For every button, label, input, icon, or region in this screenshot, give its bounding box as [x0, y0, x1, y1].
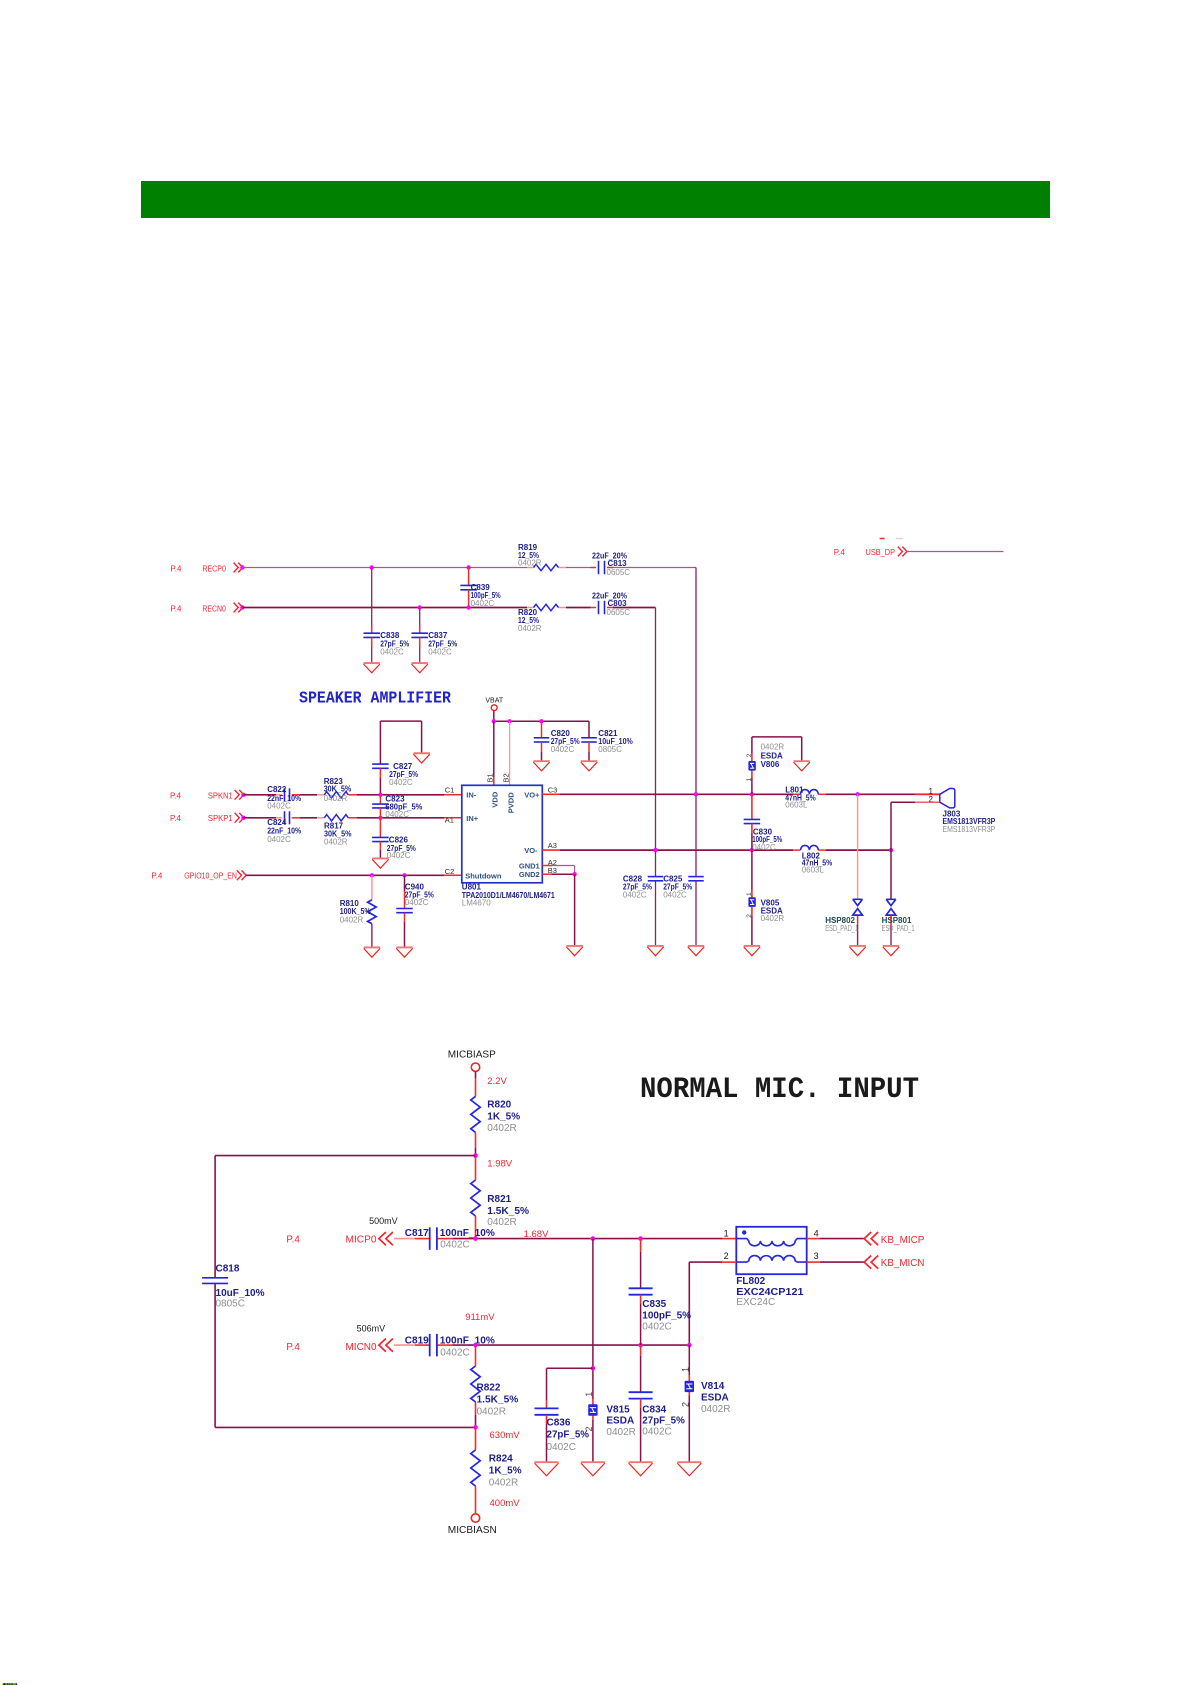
svg-text:C834: C834	[642, 1404, 666, 1415]
svg-text:0603L: 0603L	[802, 866, 825, 875]
capacitor C838	[363, 568, 409, 664]
wire HSP802	[857, 794, 859, 946]
svg-text:0402C: 0402C	[440, 1239, 469, 1250]
title NORMAL MIC. INPUT	[640, 1073, 919, 1107]
wire MICN0	[394, 1344, 689, 1346]
svg-text:0402C: 0402C	[752, 843, 776, 852]
svg-text:P.4: P.4	[834, 547, 845, 557]
wire GND2	[542, 873, 574, 875]
svg-text:1: 1	[746, 892, 753, 896]
voltage 911mV	[465, 1312, 495, 1323]
junction RECP0 port	[240, 565, 244, 569]
resistor R824	[471, 1427, 522, 1513]
svg-text:KB_MICN: KB_MICN	[881, 1258, 925, 1269]
wire VO-	[542, 849, 891, 851]
svg-text:1: 1	[724, 1229, 729, 1239]
svg-text:0603L: 0603L	[785, 800, 808, 809]
op-amp U801 box	[462, 785, 543, 883]
ground V806	[794, 761, 810, 771]
wire pin B1	[493, 721, 495, 785]
port RECP0	[234, 563, 243, 573]
svg-text:0605C: 0605C	[607, 568, 631, 577]
junction SPKN1/C823	[378, 793, 382, 797]
svg-text:0402R: 0402R	[489, 1477, 518, 1488]
junction VO+/C825	[694, 792, 698, 796]
svg-text:KB_MICP: KB_MICP	[881, 1235, 925, 1246]
svg-text:C822: C822	[267, 785, 287, 794]
pin number V806-2	[746, 753, 753, 757]
junction C836/V815	[591, 1366, 596, 1371]
svg-text:27pF_5%: 27pF_5%	[642, 1416, 685, 1427]
capacitor C835	[629, 1239, 692, 1346]
svg-text:1.5K_5%: 1.5K_5%	[477, 1395, 519, 1406]
color strip artifact	[2, 1683, 17, 1685]
net label MICP0	[286, 1235, 377, 1246]
wire GPIO10_OP_EN	[246, 874, 462, 876]
svg-text:1.98V: 1.98V	[487, 1159, 512, 1170]
pin number B1	[486, 773, 495, 782]
svg-text:NORMAL MIC. INPUT: NORMAL MIC. INPUT	[640, 1073, 919, 1107]
svg-text:V806: V806	[761, 760, 780, 769]
svg-text:FL802: FL802	[736, 1276, 765, 1287]
svg-text:0402C: 0402C	[623, 891, 647, 900]
ground C838	[364, 663, 380, 673]
svg-text:ESD_PAD_1: ESD_PAD_1	[825, 924, 858, 933]
power VBAT	[485, 697, 503, 710]
port MICN0	[379, 1339, 393, 1352]
svg-text:V814: V814	[701, 1381, 725, 1392]
ground V814	[677, 1462, 701, 1476]
pin number V805-2	[746, 914, 753, 918]
junction MICP0/C835	[638, 1236, 643, 1241]
tvs HSP801	[882, 899, 915, 933]
wire C818 loop	[215, 1156, 475, 1428]
capacitor C824	[267, 811, 301, 844]
junction VO-/C828	[653, 848, 657, 852]
pin number FL802-1	[724, 1229, 729, 1239]
svg-text:A1: A1	[445, 816, 454, 825]
capacitor C827	[372, 721, 421, 795]
svg-text:0402C: 0402C	[380, 648, 404, 657]
power MICBIASP	[448, 1049, 496, 1071]
wire SPKP1	[243, 817, 461, 819]
wire V815	[592, 1239, 594, 1463]
svg-text:2.2V: 2.2V	[487, 1076, 507, 1087]
junction GPIO/R810	[370, 873, 374, 877]
svg-text:0402R: 0402R	[324, 838, 348, 847]
junction VO+/HSP802	[855, 792, 859, 796]
port SPKP1	[235, 813, 244, 823]
svg-text:0402R: 0402R	[518, 624, 542, 633]
capacitor C828	[623, 875, 663, 900]
junction RECN0 port	[240, 605, 244, 609]
wire MICP0	[394, 1238, 736, 1240]
diode V806	[748, 743, 784, 771]
svg-text:2: 2	[724, 1251, 729, 1261]
svg-text:VO+: VO+	[524, 790, 540, 799]
svg-text:P.4: P.4	[286, 1235, 300, 1246]
wire V805	[751, 850, 753, 946]
pin number V806-1	[746, 778, 753, 782]
pin label B3	[548, 866, 557, 875]
ground V805	[744, 946, 760, 956]
svg-text:R820: R820	[487, 1099, 511, 1110]
svg-text:0402C: 0402C	[642, 1321, 671, 1332]
svg-text:1K_5%: 1K_5%	[487, 1112, 520, 1123]
svg-text:1.68V: 1.68V	[524, 1229, 549, 1240]
pin number FL802-2	[724, 1251, 729, 1261]
net label MICN0	[286, 1342, 377, 1353]
svg-text:B1: B1	[486, 773, 495, 782]
junction GND2	[572, 872, 576, 876]
svg-text:0402C: 0402C	[385, 810, 409, 819]
wire GND1	[542, 866, 574, 875]
ground C821	[581, 761, 597, 771]
ground HSP801	[883, 946, 899, 956]
capacitor C817	[405, 1227, 495, 1250]
junction MICN0/V814	[687, 1343, 692, 1348]
svg-text:SPEAKER AMPLIFIER: SPEAKER AMPLIFIER	[299, 689, 452, 708]
port RECN0	[234, 603, 243, 613]
junction MICN0/C834	[638, 1343, 643, 1348]
pin number V805-1	[746, 892, 753, 896]
svg-text:1: 1	[746, 778, 753, 782]
svg-text:0402C: 0402C	[440, 1348, 469, 1359]
svg-text:30K_5%: 30K_5%	[324, 784, 352, 793]
resistor R817	[324, 815, 352, 847]
wire KB_MICP	[807, 1238, 865, 1240]
svg-text:P.4: P.4	[286, 1342, 300, 1353]
svg-text:0402C: 0402C	[405, 898, 429, 907]
svg-text:2: 2	[746, 914, 753, 918]
port KB_MICN	[864, 1256, 878, 1269]
voltage 630mV	[490, 1430, 521, 1441]
svg-text:0402C: 0402C	[387, 851, 411, 860]
wire RECN0	[242, 607, 655, 609]
wire VBAT	[494, 711, 589, 722]
capacitor C826	[372, 818, 416, 860]
svg-text:0402R: 0402R	[701, 1404, 730, 1415]
junction MICP0/R821	[473, 1236, 478, 1241]
wire RECN0 vertical	[655, 608, 657, 946]
ground C837	[412, 663, 428, 673]
wire V814	[688, 1345, 690, 1462]
svg-text:VDD: VDD	[491, 791, 500, 807]
ground R810	[364, 948, 380, 958]
svg-text:RECN0: RECN0	[202, 603, 226, 613]
junction RECP0/C839	[466, 565, 470, 569]
pin label A3	[548, 841, 557, 850]
svg-text:C2: C2	[445, 867, 455, 876]
diode V815	[588, 1404, 636, 1438]
svg-text:SPKN1: SPKN1	[208, 790, 233, 800]
junction RECN0/C839	[466, 605, 470, 609]
svg-text:27pF_5%: 27pF_5%	[547, 1430, 590, 1441]
junction GPIO/C940	[402, 873, 406, 877]
ground HSP802	[849, 946, 865, 956]
svg-text:VO-: VO-	[524, 846, 538, 855]
svg-text:IN+: IN+	[466, 814, 479, 823]
port GPIO10_OP_EN	[237, 870, 246, 880]
inductor L802	[801, 845, 833, 874]
ground C834	[629, 1462, 653, 1476]
junction VO-/HSP801	[889, 848, 893, 852]
voltage 1.98V	[487, 1159, 512, 1170]
svg-text:P.4: P.4	[171, 563, 182, 573]
wire R820-R821	[475, 1132, 477, 1155]
svg-text:506mV: 506mV	[357, 1323, 386, 1333]
svg-text:C1: C1	[445, 786, 455, 795]
wire USB_DP	[907, 551, 1004, 553]
svg-text:A3: A3	[548, 841, 557, 850]
svg-text:SPKP1: SPKP1	[208, 813, 233, 823]
resistor R821	[471, 1156, 529, 1239]
svg-text:MICN0: MICN0	[346, 1342, 377, 1353]
net label SPKN1	[170, 790, 233, 800]
svg-text:V815: V815	[606, 1404, 630, 1415]
resistor R823	[324, 777, 352, 803]
voltage 2.2V	[487, 1076, 507, 1087]
svg-text:MICP0: MICP0	[346, 1235, 377, 1246]
svg-text:VBAT: VBAT	[485, 697, 503, 704]
svg-text:0402R: 0402R	[477, 1406, 506, 1417]
capacitor C839	[460, 568, 500, 608]
svg-text:0402C: 0402C	[471, 599, 495, 608]
svg-text:RECP0: RECP0	[202, 563, 226, 573]
svg-text:MICBIASP: MICBIASP	[448, 1049, 496, 1060]
svg-text:2: 2	[680, 1402, 690, 1407]
ground C828	[647, 946, 663, 956]
net label RECN0	[171, 603, 227, 613]
net label SPKP1	[170, 813, 233, 823]
svg-text:ESDA: ESDA	[701, 1393, 729, 1404]
svg-text:0402C: 0402C	[547, 1442, 576, 1453]
filter FL802	[736, 1227, 806, 1308]
svg-text:C3: C3	[548, 785, 558, 794]
svg-text:EXC24C: EXC24C	[736, 1297, 775, 1308]
ground C826	[372, 859, 388, 869]
svg-text:0402C: 0402C	[642, 1426, 671, 1437]
junction SPKN1 port	[241, 793, 245, 797]
junction bias tap	[473, 1153, 478, 1158]
net label RECP0	[171, 563, 227, 573]
capacitor C825	[663, 875, 704, 900]
stray mark	[880, 538, 903, 540]
wire pin B2	[509, 721, 511, 785]
svg-text:0402R: 0402R	[606, 1427, 635, 1438]
voltage 400mV	[490, 1498, 521, 1509]
pin number FL802-3	[814, 1251, 819, 1261]
ground U801	[566, 946, 582, 956]
wire FL802 pin2	[689, 1262, 736, 1345]
svg-text:911mV: 911mV	[465, 1312, 495, 1323]
svg-text:R822: R822	[477, 1383, 501, 1394]
pin label A1	[445, 816, 454, 825]
voltage 506mV	[357, 1323, 386, 1333]
capacitor C820	[534, 721, 580, 761]
pin label A2	[548, 858, 557, 867]
capacitor C836	[535, 1368, 593, 1462]
svg-text:GPIO10_OP_EN: GPIO10_OP_EN	[184, 870, 237, 880]
pin label C3	[548, 785, 558, 794]
svg-text:MICBIASN: MICBIASN	[448, 1525, 497, 1536]
svg-text:P.4: P.4	[170, 813, 181, 823]
capacitor C818	[202, 1263, 265, 1309]
resistor R822	[471, 1345, 519, 1427]
title SPEAKER AMPLIFIER	[299, 689, 452, 708]
capacitor C813	[592, 552, 630, 577]
junction VO+/V806	[750, 792, 754, 796]
svg-text:4: 4	[814, 1229, 819, 1239]
capacitor C830	[744, 794, 783, 852]
junction VBAT/C820	[539, 719, 543, 723]
svg-text:C835: C835	[642, 1299, 666, 1310]
svg-text:C824: C824	[267, 818, 287, 827]
svg-text:P.4: P.4	[151, 870, 162, 880]
svg-text:PVDD: PVDD	[506, 792, 515, 813]
wire RECP0 vertical	[695, 568, 697, 946]
capacitor C823	[372, 795, 422, 819]
net label USB_DP	[834, 547, 895, 557]
svg-text:C817: C817	[405, 1228, 429, 1239]
svg-text:USB_DP: USB_DP	[866, 547, 896, 557]
junction SPKP1/C823	[378, 816, 382, 820]
wire MICBIASP	[475, 1071, 477, 1096]
ground C836	[535, 1462, 559, 1476]
junction VBAT/B1	[492, 719, 496, 723]
ground C820	[533, 761, 549, 771]
voltage 500mV	[369, 1216, 398, 1226]
svg-text:IN-: IN-	[466, 791, 477, 800]
port MICP0	[379, 1232, 393, 1245]
capacitor C819	[405, 1334, 495, 1359]
capacitor C940	[396, 875, 434, 947]
port USB_DP	[898, 547, 907, 557]
junction VBAT/B2	[507, 719, 511, 723]
svg-text:0402C: 0402C	[267, 801, 291, 810]
svg-text:0805C: 0805C	[598, 745, 622, 754]
svg-text:C836: C836	[547, 1417, 571, 1428]
resistor R819	[518, 543, 559, 571]
svg-text:R824: R824	[489, 1454, 513, 1465]
power MICBIASN	[448, 1514, 497, 1536]
inductor L801	[785, 786, 818, 810]
junction MICN0/R822	[473, 1343, 478, 1348]
wire GND to ground	[574, 874, 576, 946]
svg-text:0402C: 0402C	[389, 778, 413, 787]
pin number V815-2	[584, 1426, 594, 1431]
pin number B2	[502, 773, 511, 782]
junction R822/R824	[473, 1425, 478, 1430]
resistor R820	[518, 604, 559, 633]
ground C827	[413, 753, 429, 763]
voltage 1.68V	[524, 1229, 549, 1240]
pin number V814-2	[680, 1402, 690, 1407]
wire V806 top	[752, 737, 802, 794]
svg-text:C819: C819	[405, 1335, 429, 1346]
svg-text:1: 1	[680, 1367, 690, 1372]
junction RECP0/C838	[370, 565, 374, 569]
svg-text:0402R: 0402R	[761, 743, 785, 752]
svg-text:R821: R821	[487, 1194, 511, 1205]
capacitor C821	[581, 721, 633, 761]
wire RECP0	[242, 567, 696, 569]
diode V805	[748, 897, 784, 923]
wire HSP801	[890, 850, 892, 946]
tvs HSP802	[825, 899, 862, 933]
ground C825	[688, 946, 704, 956]
svg-text:630mV: 630mV	[490, 1430, 521, 1441]
svg-text:1.5K_5%: 1.5K_5%	[487, 1206, 529, 1217]
svg-text:0402R: 0402R	[487, 1123, 516, 1134]
svg-text:ESD_PAD_1: ESD_PAD_1	[882, 924, 915, 933]
junction RECN0/C837	[418, 605, 422, 609]
svg-text:LM4670: LM4670	[462, 899, 491, 908]
svg-text:0605C: 0605C	[607, 608, 631, 617]
ground V815	[581, 1462, 605, 1476]
svg-text:0805C: 0805C	[216, 1299, 245, 1310]
svg-text:0402C: 0402C	[428, 648, 452, 657]
wire KB_MICN	[807, 1261, 865, 1263]
svg-text:1: 1	[584, 1392, 594, 1397]
pin number FL802-4	[814, 1229, 819, 1239]
diode V814	[685, 1381, 731, 1415]
svg-text:2: 2	[746, 753, 753, 757]
pin label C1	[445, 786, 455, 795]
port KB_MICP	[864, 1232, 878, 1245]
wire speaker pin2	[891, 802, 940, 850]
speaker J803	[929, 787, 996, 834]
svg-text:C818: C818	[216, 1263, 240, 1274]
wire SPKN1	[243, 794, 461, 796]
net label GPIO10_OP_EN	[151, 870, 237, 880]
svg-text:400mV: 400mV	[490, 1498, 521, 1509]
svg-text:P.4: P.4	[170, 790, 181, 800]
resistor R820mic	[471, 1096, 520, 1133]
svg-text:0402C: 0402C	[663, 891, 687, 900]
svg-text:0402R: 0402R	[324, 794, 348, 803]
svg-text:P.4: P.4	[171, 603, 182, 613]
svg-text:500mV: 500mV	[369, 1216, 398, 1226]
capacitor C837	[411, 608, 457, 664]
junction SPKP1 port	[241, 816, 245, 820]
pin label C2	[445, 867, 455, 876]
svg-text:100nF_10%: 100nF_10%	[440, 1228, 495, 1239]
svg-text:0402R: 0402R	[761, 914, 785, 923]
svg-text:B2: B2	[502, 773, 511, 782]
svg-text:EMS1813VFR3P: EMS1813VFR3P	[943, 825, 996, 834]
capacitor C803	[592, 592, 630, 617]
wire VO+	[542, 793, 940, 795]
pin number V814-1	[680, 1367, 690, 1372]
svg-text:0402R: 0402R	[487, 1217, 516, 1228]
svg-text:Shutdown: Shutdown	[465, 871, 502, 880]
junction MICP0/V815	[591, 1236, 596, 1241]
svg-text:GND2: GND2	[519, 870, 540, 879]
green title bar	[141, 181, 1050, 218]
net label KB_MICN	[881, 1258, 925, 1269]
svg-text:100pF_5%: 100pF_5%	[642, 1310, 691, 1321]
svg-text:ESDA: ESDA	[606, 1416, 634, 1427]
ground C940	[396, 948, 412, 958]
svg-text:0402C: 0402C	[551, 745, 575, 754]
pin number V815-1	[584, 1392, 594, 1397]
capacitor C834	[629, 1345, 685, 1462]
svg-text:0402R: 0402R	[518, 559, 542, 568]
capacitor C822	[267, 785, 301, 810]
junction VO-/C830	[750, 848, 754, 852]
svg-text:1K_5%: 1K_5%	[489, 1465, 522, 1476]
